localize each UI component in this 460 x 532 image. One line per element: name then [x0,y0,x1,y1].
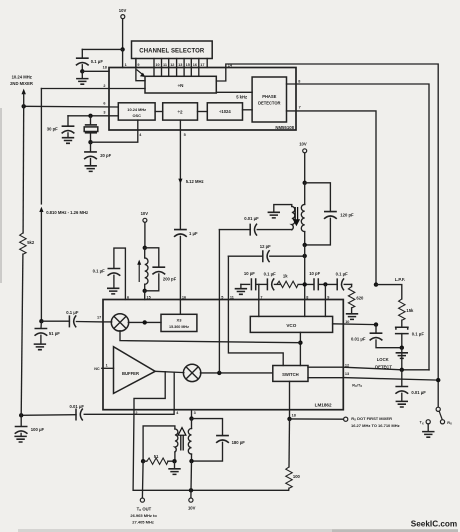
wire primary bottom to rail [190,461,193,490]
wire pin 3 to output transformer [191,410,193,419]
mixer M2 second mixer [183,364,200,381]
node tank top junction [303,181,307,185]
capacitor 0.1 uF LM pin 6 bypass [93,248,126,299]
svg-text:0.01 μF: 0.01 μF [411,390,426,395]
VCO block [250,316,332,332]
svg-text:10V: 10V [141,211,149,216]
svg-text:180 pF: 180 pF [232,440,246,445]
transformer T2 secondary winding [143,426,178,461]
terminal 10V bottom [188,490,196,510]
scan smudge bottom [18,529,458,532]
wire pin 5 of PLL down to LM1862 pin 16 with 1uF [174,120,204,299]
svg-text:51 pF: 51 pF [49,331,60,336]
capacitor 10 pF (pin 7 row) [244,271,268,290]
resistor 100 to rail [286,419,301,490]
wire VCO pin 10 output [333,320,376,325]
node junction rail/pin6 [22,104,26,108]
svg-text:5: 5 [221,295,223,299]
wire 10V terminal to pin1 junction [122,19,124,50]
node junction pin 18 / RX out [287,417,291,421]
svg-text:16.27 MHz TO 16.710 MHz: 16.27 MHz TO 16.710 MHz [351,423,400,428]
wire pin 6 to oscillator [24,105,119,108]
resistor 5k2 in rail [20,106,35,415]
node junction secondary top / TX out [141,459,145,463]
svg-text:15k: 15k [406,308,414,313]
svg-text:16: 16 [182,295,186,299]
wire divider 2 to divider 1024 [198,111,208,113]
capacitor 0.01 uF lock detect [395,370,426,407]
wire divider 1024 to phase detector [243,109,253,111]
svg-text:0.1 μF: 0.1 μF [264,271,277,276]
svg-text:27.405 MHz: 27.405 MHz [132,520,154,525]
svg-text:SWITCH: SWITCH [282,372,299,377]
wire pin 5 internal [218,300,220,373]
ground for 10pF row [235,284,250,294]
capacitor 10 pF (pin 9 row) [309,271,337,290]
wire MM pin 2 rail with arrow 0.810-1.26 MHz [39,89,88,322]
wire mixer M2 to switch [200,372,272,374]
svg-text:16: 16 [193,63,197,67]
ground LPF node [396,348,408,370]
svg-text:÷2: ÷2 [177,109,183,114]
svg-text:0.1 μF: 0.1 μF [66,310,79,315]
svg-text:13: 13 [178,63,182,67]
wire coil to LM pin 15 [144,291,146,300]
wire buffer output to mixer M2 [155,371,184,372]
svg-text:PHASE: PHASE [262,94,276,99]
node tank bottom junction [303,243,307,247]
wire pin 17 into mixer M1 [103,321,112,323]
resistor 51 across secondary [143,454,174,465]
svg-text:RX DOT FIRST MIXER: RX DOT FIRST MIXER [351,416,392,422]
svg-text:7: 7 [260,295,262,299]
node junction pin7 line/LPF [374,282,378,286]
scan artifact left edge [0,108,2,283]
channel selector block [132,41,213,59]
wire switch to pin 18 [289,381,291,419]
svg-text:VCO: VCO [286,323,296,328]
terminal RX DOT FIRST MIXER [290,416,400,428]
buffer amplifier [114,347,156,394]
svg-text:0.1 μF: 0.1 μF [336,271,349,276]
node crystal top junction [88,114,92,118]
svg-text:100: 100 [293,474,301,479]
node NC pin 1 [94,363,113,370]
node 10V VCO tank terminal [299,141,307,183]
svg-text:100 μF: 100 μF [31,427,45,432]
svg-text:BUFFER: BUFFER [122,371,139,376]
wire pin 11 internal to switch [228,300,283,366]
pin labels LM1862 top edge [127,295,329,299]
svg-text:1: 1 [125,63,127,67]
wire LM pin 7 to row [258,284,260,299]
svg-text:3: 3 [194,411,196,415]
wire switch to pin 12 [308,366,343,368]
node junction LPF bottom [400,346,404,350]
wire VCO bottom to switch [299,332,301,365]
wire mixer M1 LO from VCO [120,331,300,343]
svg-text:120 pF: 120 pF [340,213,354,218]
svg-text:10V: 10V [188,505,196,510]
ground secondary [168,461,180,474]
wires channel selector pins 9-17 to chip top [136,59,207,68]
svg-text:÷1024: ÷1024 [219,109,231,114]
node LOCK DETECT label [375,357,392,369]
wire pin 9 into divider N [136,59,145,81]
svg-text:LM1862: LM1862 [315,403,332,408]
svg-text:0.1 μF: 0.1 μF [93,269,106,274]
node junction secondary bottom [172,459,176,463]
svg-text:15: 15 [186,63,190,67]
pin number labels 9 10 11 12 13 15 16 17 [137,63,204,67]
IC U1 MM55108 PLL outline [109,68,296,131]
wire pin 4 TX out coupling [21,404,179,421]
svg-text:9: 9 [327,295,329,299]
svg-text:2ND MIXER: 2ND MIXER [10,81,33,86]
wire pin 18 into MM55108 [82,70,109,72]
svg-text:620: 620 [356,296,364,301]
svg-text:0.01 μF: 0.01 μF [244,216,259,221]
wire mixer M1 output junction [128,321,161,323]
svg-text:L.P.F.: L.P.F. [395,277,405,282]
node junction pin1/0.1uF [120,47,124,51]
wire VCO line pin 8 [304,245,306,300]
wires selector pins into divider N [154,68,199,77]
arrow tuning indicator L1 [137,260,141,282]
switch block internal [273,366,308,382]
switch TX/RX [420,407,452,437]
svg-text:5k2: 5k2 [27,240,35,245]
svg-text:0.1 μF: 0.1 μF [91,59,104,64]
node 10V mid terminal (X3 coil) [141,211,149,248]
svg-text:1k: 1k [283,274,288,279]
capacitor 100 uF [14,415,44,442]
node 10V top supply terminal [119,8,127,18]
svg-text:6: 6 [127,295,129,299]
svg-text:20 pF: 20 pF [100,153,111,158]
svg-text:5 kHz: 5 kHz [236,95,247,100]
capacitor 20 pF [84,142,111,171]
wire pin 2 input to divider N [41,88,145,90]
node junction row / pin8 line [303,282,307,286]
wire mixer M2 to pin 4 [173,372,175,410]
capacitor 0.1 uF (620 side) [336,271,352,290]
transformer T2 primary winding [188,419,191,462]
transformer T1 primary winding [268,205,295,230]
svg-text:5.12 MHz: 5.12 MHz [186,179,204,184]
node junction pin18 [80,69,84,73]
node junction supply rail / 10V [189,488,193,492]
arrow program control into divider [137,70,146,77]
oscillator block 10.24 MHz OSC [118,103,155,120]
multiplier X3 block 15.360 MHz [161,314,197,331]
wire divider N to phase detector [216,91,252,93]
node junction pin13/pin14 loop [436,378,440,382]
wire buffer output to pin 2 [134,372,165,410]
node coil bottom junction [143,289,147,293]
svg-text:÷N: ÷N [178,83,185,88]
node junction pin17 coupling [39,319,43,323]
wire switch to pin 13 [308,377,343,379]
crystal Y1 10.24 MHz [84,116,98,142]
node coil top junction [143,246,147,250]
svg-text:11: 11 [230,295,234,299]
svg-text:26.965 MHz to: 26.965 MHz to [130,513,157,518]
svg-text:12: 12 [170,63,174,67]
node junction row / pin9 line [323,282,327,286]
wire pin 1 into MM55108 [122,49,124,67]
ground for bypass cap [76,71,88,84]
arrows tuning indicator transformer T1 [293,207,300,226]
svg-text:5: 5 [184,133,186,137]
capacitor 200 pF across L1 [145,248,177,291]
divider 2 block [163,103,198,120]
svg-text:200 pF: 200 pF [163,276,177,281]
svg-text:10.24 MHz: 10.24 MHz [12,75,32,80]
wire osc to divider 2 [155,111,163,113]
capacitor 51 pF to ground [34,321,61,350]
svg-text:30 pF: 30 pF [47,127,58,132]
wires pins 7 8 9 into VCO [259,300,326,317]
node junction pin3/180pF [189,416,193,420]
node junction lock cap [400,368,404,372]
wire LM pin 9 to row [324,284,326,299]
svg-text:12: 12 [345,363,349,367]
wire pin 12 lock detect [343,363,429,369]
capacitor 30 pF [47,116,75,144]
svg-text:10V: 10V [299,141,307,146]
phase detector block [252,77,286,122]
svg-text:10: 10 [155,63,159,67]
wire pin 16 into X3 [179,300,181,315]
svg-text:OSC: OSC [132,113,141,118]
node junction mixer/pin15 [143,320,147,324]
wire pin 4 to crystal [91,120,138,142]
capacitor 120 pF tank [305,183,354,245]
node junction mixer M2 / pin 5 [217,371,221,375]
svg-text:NM55108: NM55108 [275,125,294,130]
terminal TX OUT [130,461,157,524]
capacitor C bypass 0.1uF [76,49,103,71]
capacitor 180 pF across primary [192,419,246,462]
svg-text:1 μF: 1 μF [189,231,198,236]
capacitor 0.01 uF to LM pin 5 [219,216,291,300]
svg-text:CHANNEL SELECTOR: CHANNEL SELECTOR [139,49,205,55]
svg-text:10 pF: 10 pF [309,271,320,276]
svg-text:LOCK: LOCK [377,357,389,362]
mixer M1 first mixer [111,314,128,331]
low pass filter L.P.F. [376,277,424,348]
svg-text:9: 9 [137,63,139,67]
wire phase detector pin 8 to lock line [287,79,430,370]
resistor 1k [277,274,313,288]
wire pin 14 loop: up over right side down to TX/RX switch [216,64,438,407]
svg-text:0.810 MHz - 1.26 MHz: 0.810 MHz - 1.26 MHz [46,210,88,215]
node junction primary bottom [189,459,193,463]
IC U2 LM1862 outline [103,300,343,410]
wire pin 3 crystal to oscillator [68,115,118,117]
svg-text:10V: 10V [119,8,127,13]
svg-text:3: 3 [103,111,105,115]
svg-text:10: 10 [345,320,349,324]
svg-text:X3: X3 [177,317,183,322]
node junction VCO/mixer LO [298,341,302,345]
resistor 620 to ground [346,284,364,319]
svg-text:SeekIC.com: SeekIC.com [411,519,457,528]
svg-text:8: 8 [306,295,308,299]
node crystal bottom junction [88,140,92,144]
capacitor 0.1 uF (pin 7 row) [264,271,280,290]
svg-text:15: 15 [147,295,151,299]
svg-text:NC: NC [94,367,100,371]
svg-text:2: 2 [103,84,105,88]
node 2nd mixer output arrow [10,75,33,107]
capacitor 0.1 uF to pin 17 [41,310,103,328]
svg-text:17: 17 [97,316,101,320]
divider 1024 block [207,103,242,120]
capacitor 0.01 uF series VCO control [351,325,402,348]
wire junction to bypass cap [82,48,122,50]
svg-text:15.360 MHz: 15.360 MHz [169,325,189,329]
svg-text:10.24 MHz: 10.24 MHz [127,107,146,112]
capacitor 12 pF to LM pin 11 [228,244,304,299]
arrows tuning indicator T2 [178,428,186,451]
svg-text:10 pF: 10 pF [244,271,255,276]
transformer T1 VCO tank secondary winding [301,183,304,245]
divider N block [145,76,216,93]
svg-text:0.1 μF: 0.1 μF [412,331,425,336]
svg-text:6: 6 [103,101,105,105]
svg-text:18: 18 [103,66,107,70]
wire pin 2 down to supply rail [133,410,289,491]
wire phase detector pin 7 to LPF [287,106,377,285]
svg-text:TX OUT: TX OUT [137,506,152,512]
svg-text:17: 17 [200,63,204,67]
svg-text:0.01 μF: 0.01 μF [351,337,366,342]
svg-text:DETECTOR: DETECTOR [258,100,280,105]
wire pin 13 RX/TX select [343,372,438,388]
svg-text:18: 18 [292,413,296,417]
node junction 100uF [19,413,23,417]
svg-text:1: 1 [106,363,108,367]
svg-text:8: 8 [298,79,300,83]
svg-text:13: 13 [345,372,349,376]
svg-text:7: 7 [299,106,301,110]
inductor L1 tunable (X3 tank) [145,248,148,291]
node junction 12pF / VCO line [303,254,307,258]
svg-text:11: 11 [163,63,167,67]
node junction pin10/loop filter [374,322,378,326]
svg-text:12 pF: 12 pF [260,244,271,249]
